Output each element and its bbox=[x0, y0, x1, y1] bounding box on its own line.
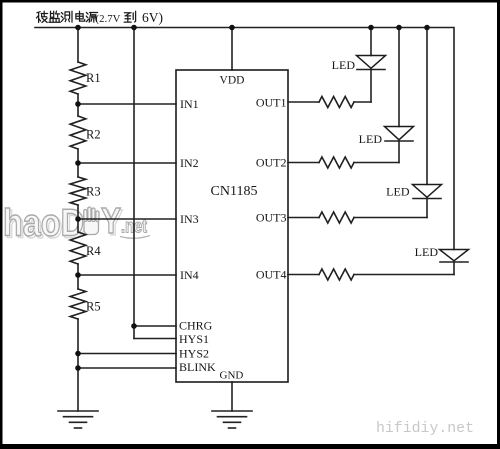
svg-text:R5: R5 bbox=[86, 300, 101, 314]
svg-text:HYS1: HYS1 bbox=[179, 332, 209, 346]
svg-text:R4: R4 bbox=[86, 244, 101, 258]
svg-text:OUT4: OUT4 bbox=[256, 268, 287, 282]
svg-text:LED: LED bbox=[386, 185, 410, 199]
svg-text:OUT1: OUT1 bbox=[256, 96, 287, 110]
svg-text:LED: LED bbox=[332, 58, 356, 72]
svg-text:CHRG: CHRG bbox=[179, 319, 213, 333]
svg-text:haoD: haoD bbox=[3, 203, 84, 245]
svg-text:IN1: IN1 bbox=[180, 97, 199, 111]
svg-text:R2: R2 bbox=[86, 128, 101, 142]
svg-text:hifidiy.net: hifidiy.net bbox=[376, 420, 474, 437]
svg-text:OUT3: OUT3 bbox=[256, 211, 287, 225]
svg-text:LED: LED bbox=[415, 245, 439, 259]
svg-text:R3: R3 bbox=[86, 185, 101, 199]
svg-text:GND: GND bbox=[220, 370, 244, 382]
svg-text:VDD: VDD bbox=[220, 75, 245, 87]
svg-text:Y: Y bbox=[101, 200, 121, 241]
svg-text:LED: LED bbox=[359, 132, 383, 146]
svg-text:OUT2: OUT2 bbox=[256, 156, 287, 170]
svg-text:6V): 6V) bbox=[142, 10, 163, 25]
svg-text:IN2: IN2 bbox=[180, 156, 199, 170]
svg-text:(2.7V: (2.7V bbox=[96, 13, 121, 25]
svg-text:R1: R1 bbox=[86, 71, 101, 85]
svg-text:CN1185: CN1185 bbox=[211, 184, 258, 199]
svg-text:BLINK: BLINK bbox=[179, 360, 216, 374]
svg-text:IN4: IN4 bbox=[180, 268, 199, 282]
svg-text:IN3: IN3 bbox=[180, 212, 199, 226]
svg-text:HYS2: HYS2 bbox=[179, 347, 209, 361]
